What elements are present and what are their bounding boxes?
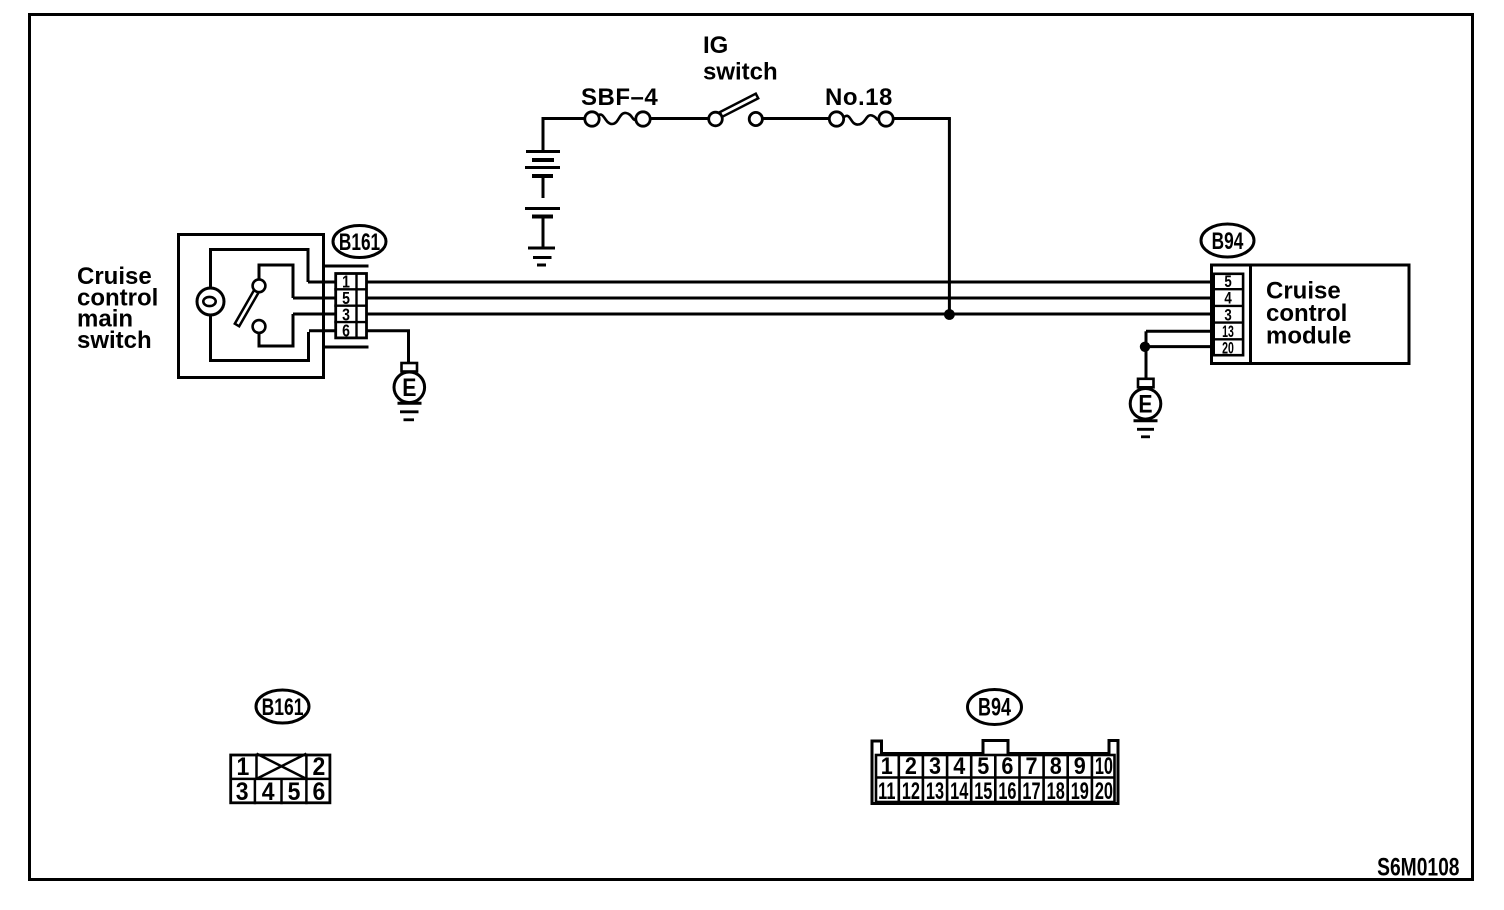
svg-text:B161: B161	[339, 229, 381, 255]
svg-text:5: 5	[288, 778, 301, 806]
svg-text:4: 4	[262, 778, 275, 806]
svg-text:10: 10	[1095, 753, 1113, 780]
svg-text:IG: IG	[703, 32, 728, 59]
svg-text:12: 12	[902, 778, 920, 805]
svg-text:B94: B94	[1212, 228, 1244, 254]
svg-text:6: 6	[313, 778, 326, 806]
svg-text:3: 3	[929, 752, 941, 779]
svg-text:14: 14	[950, 778, 969, 805]
svg-text:15: 15	[974, 778, 992, 805]
svg-text:11: 11	[878, 778, 895, 805]
svg-text:9: 9	[1074, 752, 1086, 779]
svg-text:16: 16	[998, 778, 1016, 805]
svg-text:S6M0108: S6M0108	[1377, 853, 1459, 881]
svg-text:13: 13	[926, 778, 944, 805]
svg-text:switch: switch	[703, 59, 778, 86]
svg-text:1: 1	[881, 752, 893, 779]
svg-text:switch: switch	[77, 327, 152, 354]
svg-text:No.18: No.18	[825, 84, 893, 111]
svg-text:E: E	[1138, 390, 1152, 418]
svg-text:17: 17	[1022, 778, 1040, 805]
svg-text:1: 1	[237, 753, 250, 781]
svg-text:19: 19	[1071, 778, 1089, 805]
svg-text:7: 7	[1025, 752, 1037, 779]
svg-text:B161: B161	[262, 695, 304, 721]
svg-text:5: 5	[977, 752, 989, 779]
svg-text:B94: B94	[978, 693, 1011, 722]
svg-text:6: 6	[1001, 752, 1013, 779]
svg-text:3: 3	[236, 778, 249, 806]
svg-text:4: 4	[953, 752, 965, 779]
svg-text:6: 6	[342, 321, 350, 341]
svg-text:SBF–4: SBF–4	[581, 84, 658, 111]
svg-text:8: 8	[1050, 752, 1062, 779]
svg-text:module: module	[1266, 323, 1351, 350]
svg-text:2: 2	[313, 753, 326, 781]
svg-text:E: E	[402, 374, 416, 402]
svg-text:18: 18	[1047, 778, 1065, 805]
svg-text:20: 20	[1095, 778, 1113, 805]
svg-text:2: 2	[905, 752, 917, 779]
svg-text:20: 20	[1222, 338, 1234, 357]
